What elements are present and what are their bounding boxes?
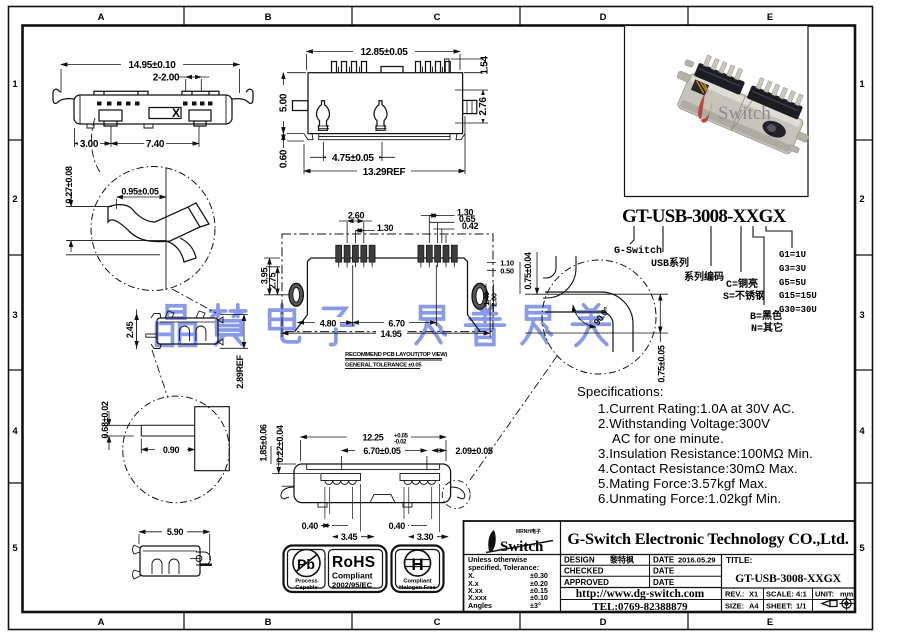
- svg-text:4: 4: [12, 426, 18, 437]
- svg-text:Angles: Angles: [468, 601, 492, 610]
- svg-text:G-Switch Electronic Technology: G-Switch Electronic Technology CO.,Ltd.: [567, 529, 848, 548]
- svg-text:A4: A4: [749, 602, 759, 611]
- svg-text:13.29REF: 13.29REF: [363, 167, 406, 178]
- svg-text:B=黑色: B=黑色: [750, 309, 782, 323]
- svg-text:0.95±0.05: 0.95±0.05: [121, 187, 159, 197]
- svg-text:5: 5: [12, 543, 18, 554]
- svg-text:14.95: 14.95: [380, 329, 401, 339]
- svg-text:1: 1: [12, 79, 18, 90]
- svg-text:1.85±0.06: 1.85±0.06: [259, 424, 269, 462]
- svg-text:H: H: [411, 555, 423, 574]
- svg-text:0.22±0.04: 0.22±0.04: [275, 425, 285, 463]
- svg-text:Compliant: Compliant: [332, 571, 373, 581]
- svg-text:1: 1: [859, 79, 865, 90]
- svg-text:6.70±0.05: 6.70±0.05: [363, 446, 401, 456]
- svg-text:0.75±0.04: 0.75±0.04: [523, 252, 533, 290]
- svg-text:AC for one minute.: AC for one minute.: [612, 431, 724, 446]
- svg-text:DATE: DATE: [653, 578, 675, 587]
- svg-text:2.75: 2.75: [268, 273, 278, 290]
- svg-text:D: D: [600, 12, 607, 23]
- svg-text:GT-USB-3008-XXGX: GT-USB-3008-XXGX: [622, 206, 787, 227]
- svg-text:C: C: [434, 617, 441, 628]
- svg-text:X1: X1: [749, 590, 758, 599]
- svg-text:RECOMMEND PCB LAYOUT(TOP VIEW): RECOMMEND PCB LAYOUT(TOP VIEW): [345, 352, 448, 358]
- svg-text:N=其它: N=其它: [751, 321, 783, 335]
- svg-text:Switch: Switch: [718, 103, 771, 124]
- svg-text:A: A: [98, 617, 105, 628]
- svg-text:A: A: [98, 12, 105, 23]
- svg-text:4: 4: [859, 426, 865, 437]
- svg-text:UNIT:: UNIT:: [815, 590, 834, 599]
- svg-text:系列编码: 系列编码: [684, 270, 724, 284]
- svg-text:B: B: [265, 12, 272, 23]
- svg-text:3.45: 3.45: [341, 532, 358, 542]
- svg-text:DESIGN: DESIGN: [564, 556, 595, 565]
- svg-text:Process: Process: [295, 579, 318, 585]
- svg-text:GENERAL TOLERANCE ±0.05: GENERAL TOLERANCE ±0.05: [345, 363, 422, 369]
- svg-text:E: E: [767, 12, 773, 23]
- svg-text:2.60: 2.60: [348, 211, 365, 221]
- svg-text:±3°: ±3°: [530, 601, 541, 610]
- svg-text:G1=1U: G1=1U: [779, 250, 806, 260]
- svg-text:2002/95/EC: 2002/95/EC: [332, 581, 373, 590]
- svg-text:USB系列: USB系列: [651, 256, 689, 270]
- svg-text:S=不锈钢: S=不锈钢: [723, 289, 765, 303]
- svg-text:1/1: 1/1: [796, 602, 806, 611]
- svg-text:2: 2: [12, 194, 17, 205]
- svg-text:0.50: 0.50: [500, 266, 514, 275]
- svg-text:G3=3U: G3=3U: [779, 264, 806, 274]
- svg-text:C=铜亮: C=铜亮: [726, 277, 758, 291]
- svg-text:Compliant: Compliant: [403, 579, 431, 585]
- svg-text:5.Mating Force:3.57kgf Max.: 5.Mating Force:3.57kgf Max.: [598, 476, 768, 491]
- svg-text:黎特枫: 黎特枫: [610, 555, 634, 565]
- svg-text:RoHS: RoHS: [332, 554, 375, 571]
- svg-text:TEL:0769-82388879: TEL:0769-82388879: [592, 601, 688, 613]
- svg-text:4.Contact Resistance:30mΩ Max.: 4.Contact Resistance:30mΩ Max.: [598, 461, 798, 476]
- svg-text:3: 3: [12, 310, 17, 321]
- svg-text:2.00: 2.00: [490, 293, 499, 307]
- svg-text:7.40: 7.40: [146, 139, 165, 150]
- svg-text:2.Withstanding Voltage:300V: 2.Withstanding Voltage:300V: [598, 416, 770, 431]
- svg-text:G5=5U: G5=5U: [779, 278, 806, 288]
- svg-text:5.90: 5.90: [167, 527, 184, 537]
- svg-text:0.40: 0.40: [389, 521, 406, 531]
- svg-text:C: C: [434, 12, 441, 23]
- svg-text:1.30: 1.30: [377, 223, 394, 233]
- svg-text:B: B: [265, 617, 272, 628]
- svg-text:6.Unmating Force:1.02kgf Min.: 6.Unmating Force:1.02kgf Min.: [598, 491, 781, 506]
- svg-text:4.75±0.05: 4.75±0.05: [332, 153, 374, 164]
- svg-text:Specifications:: Specifications:: [577, 384, 664, 399]
- svg-text:2-2.00: 2-2.00: [153, 73, 180, 84]
- svg-text:14.95±0.10: 14.95±0.10: [129, 60, 177, 71]
- svg-text:E: E: [767, 617, 773, 628]
- svg-text:0.42: 0.42: [462, 221, 479, 231]
- svg-text:2016.05.29: 2016.05.29: [678, 556, 716, 565]
- svg-text:SIZE:: SIZE:: [725, 602, 744, 611]
- svg-text:Halogen Free: Halogen Free: [399, 585, 436, 591]
- svg-text:2.89REF: 2.89REF: [235, 354, 245, 388]
- svg-text:12.85±0.05: 12.85±0.05: [361, 47, 409, 58]
- svg-text:SHEET:: SHEET:: [766, 602, 793, 611]
- svg-text:2.45: 2.45: [125, 322, 135, 339]
- svg-text:specified, Tolerance:: specified, Tolerance:: [468, 563, 539, 572]
- svg-text:1.Current Rating:1.0A at 30V A: 1.Current Rating:1.0A at 30V AC.: [598, 401, 795, 416]
- svg-text:Capable: Capable: [295, 585, 318, 591]
- svg-text:X: X: [172, 106, 180, 120]
- svg-text:GT-USB-3008-XXGX: GT-USB-3008-XXGX: [735, 571, 842, 585]
- svg-text:4:1: 4:1: [796, 590, 807, 599]
- svg-text:G-Switch: G-Switch: [614, 245, 662, 257]
- svg-text:0.60: 0.60: [279, 149, 290, 168]
- svg-text:0.68±0.02: 0.68±0.02: [100, 401, 110, 439]
- svg-text:3.30: 3.30: [417, 532, 434, 542]
- svg-text:http://www.dg-switch.com: http://www.dg-switch.com: [576, 588, 705, 600]
- svg-text:3.00: 3.00: [80, 139, 99, 150]
- svg-text:0.27±0.08: 0.27±0.08: [64, 166, 74, 204]
- svg-text:1.54: 1.54: [480, 56, 491, 75]
- svg-text:CHECKED: CHECKED: [564, 567, 604, 576]
- svg-text:APPROVED: APPROVED: [564, 578, 609, 587]
- svg-text:DATE: DATE: [653, 556, 675, 565]
- svg-text:MRNH电子: MRNH电子: [516, 528, 541, 535]
- svg-text:0.90: 0.90: [163, 445, 180, 455]
- svg-text:G15=15U: G15=15U: [779, 291, 817, 301]
- svg-text:G30=30U: G30=30U: [779, 305, 817, 315]
- svg-text:SCALE:: SCALE:: [766, 590, 794, 599]
- svg-text:DATE: DATE: [653, 567, 675, 576]
- svg-text:2.09±0.05: 2.09±0.05: [455, 446, 493, 456]
- svg-text:2.76: 2.76: [478, 97, 489, 116]
- svg-text:12.25: 12.25: [362, 432, 383, 442]
- svg-text:5: 5: [859, 543, 865, 554]
- svg-text:TITLE:: TITLE:: [726, 555, 753, 565]
- svg-text:0.40: 0.40: [302, 521, 319, 531]
- svg-text:3: 3: [859, 310, 864, 321]
- svg-text:5.00: 5.00: [279, 93, 290, 112]
- svg-text:D: D: [600, 617, 607, 628]
- svg-text:6.70: 6.70: [388, 318, 405, 328]
- svg-text:REV.:: REV.:: [725, 590, 744, 599]
- svg-text:2: 2: [859, 194, 864, 205]
- svg-text:0.75±0.05: 0.75±0.05: [657, 345, 667, 383]
- svg-text:Switch: Switch: [500, 539, 544, 555]
- svg-text:4.80: 4.80: [320, 318, 337, 328]
- svg-text:-0.02: -0.02: [394, 440, 407, 446]
- svg-text:3.Insulation Resistance:100MΩ: 3.Insulation Resistance:100MΩ Min.: [598, 446, 813, 461]
